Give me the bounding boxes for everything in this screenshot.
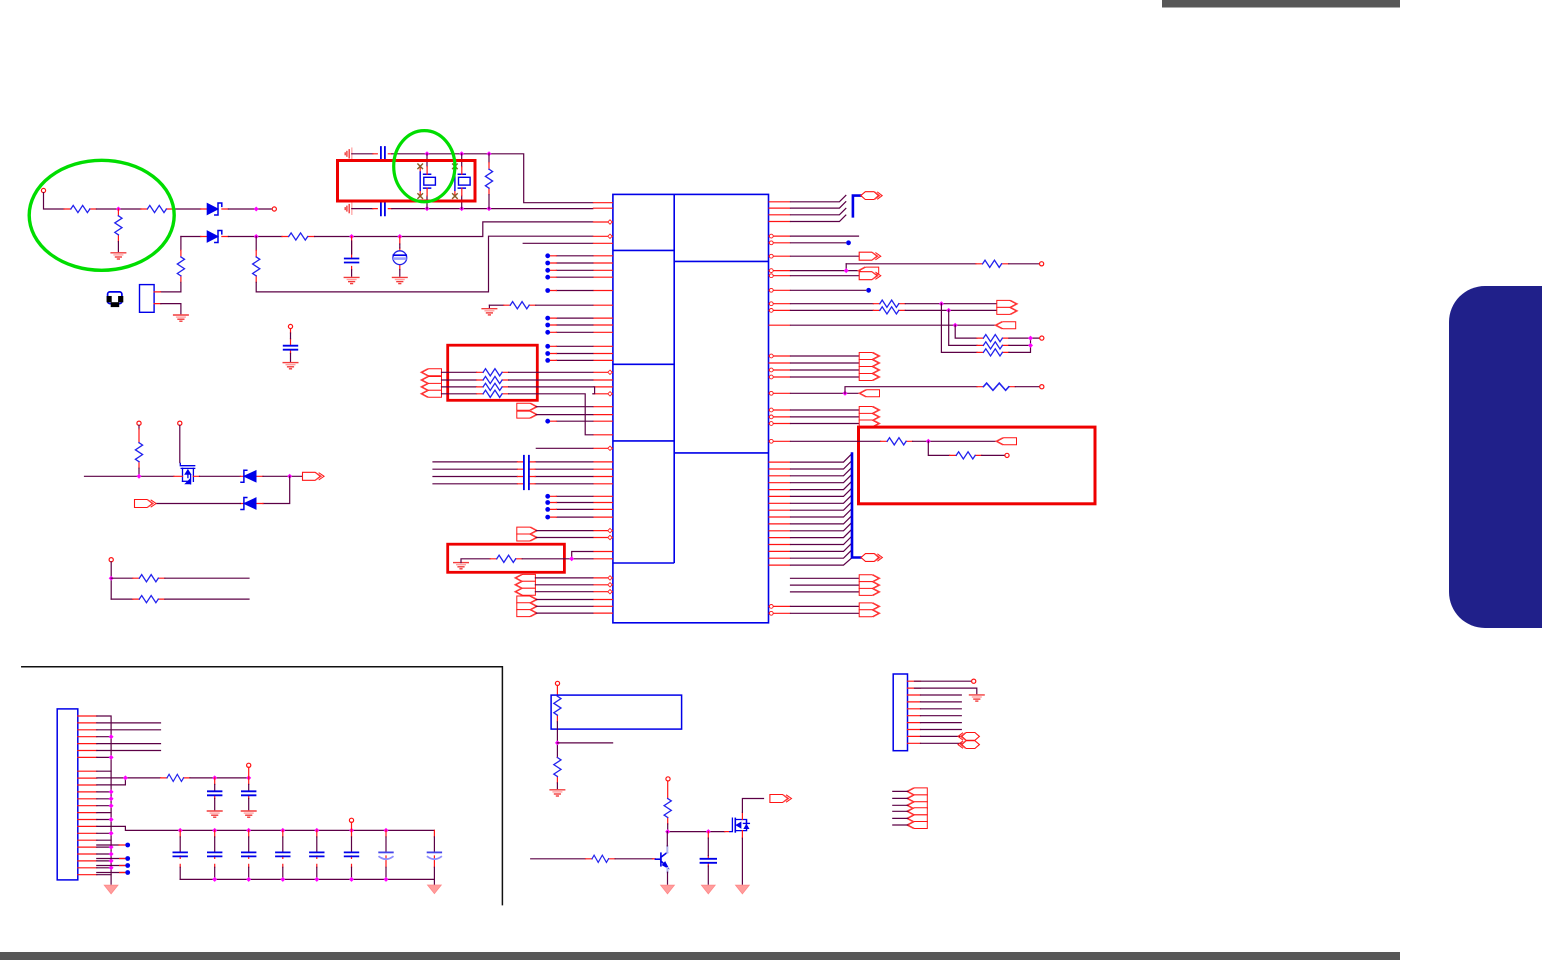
ground — [207, 811, 222, 817]
capacitor C7 — [173, 830, 187, 879]
tap wire — [557, 742, 612, 744]
hex port connector pair — [958, 733, 979, 741]
ground — [428, 885, 442, 894]
wire to port — [263, 475, 302, 477]
port double stack rows 304/311 — [997, 300, 1018, 307]
capacitor C1 — [351, 237, 353, 270]
resistor R15 — [873, 303, 905, 305]
junction — [116, 207, 121, 212]
small IC block U2 — [551, 695, 682, 729]
capacitor C12 — [345, 830, 359, 879]
resistor R7 — [488, 154, 490, 163]
resistor R27 lead — [556, 686, 558, 722]
transistor Q3 — [655, 852, 667, 866]
vertical wire — [110, 562, 112, 599]
ground — [283, 363, 298, 369]
stub wires into stack — [893, 791, 908, 825]
resistor R12 — [477, 393, 509, 395]
gate wire — [179, 425, 181, 462]
wire — [228, 236, 282, 238]
junction — [459, 206, 464, 211]
junction — [137, 474, 142, 479]
transistor Q3 base lead — [653, 858, 656, 860]
ground rotated top rail — [345, 148, 352, 159]
ground — [661, 885, 675, 894]
IC U1 internal divider vertical — [673, 194, 675, 563]
mounting logo glyph — [108, 292, 122, 304]
gate net wire — [668, 831, 725, 833]
no-connect stub wires group1 — [556, 256, 592, 517]
wire to connector — [913, 440, 997, 442]
no-connect dot — [846, 240, 851, 245]
junction — [665, 829, 670, 834]
crystal Y2 — [453, 164, 471, 198]
IC U1 divider seg F — [613, 562, 674, 564]
resistor R17 — [977, 337, 1009, 339]
port connector out — [770, 795, 792, 803]
risers to resistor trio — [941, 304, 977, 353]
power terminal — [1040, 262, 1044, 266]
pin2 wire to ground — [915, 688, 977, 694]
ground — [104, 885, 118, 894]
wire below — [556, 722, 558, 757]
IC U1 divider seg B — [674, 260, 768, 262]
wire to left port — [157, 503, 241, 505]
mosfet Q2 gate lead — [725, 831, 730, 833]
emitter pin — [667, 868, 669, 872]
resistor R4 — [180, 250, 182, 282]
wire — [173, 208, 201, 210]
capacitor C6 — [248, 778, 250, 799]
junction — [926, 439, 931, 444]
wires to hex ports — [921, 736, 962, 743]
lower bus blue — [852, 454, 861, 558]
wire — [44, 193, 65, 209]
ground rotated bottom rail — [345, 203, 352, 214]
mosfet Q2 — [730, 818, 750, 832]
capacitor C10 — [276, 830, 290, 879]
stub wire row 236 — [791, 235, 859, 237]
lower pair power terminal — [109, 558, 113, 562]
connector box-left row 393 — [859, 390, 880, 397]
junction — [254, 234, 259, 239]
rail junctions — [178, 828, 183, 833]
feedthrough capacitor plates — [524, 456, 529, 489]
top bus fan wires — [791, 195, 846, 221]
capacitor C9 — [242, 830, 256, 879]
IC U1 outline — [613, 194, 769, 622]
connector stack left 3x rows 578-592 — [515, 574, 536, 581]
no-connect dot — [866, 288, 871, 293]
loop wire down — [263, 476, 290, 503]
junction — [212, 775, 217, 780]
wire — [228, 208, 271, 210]
row1 wire — [111, 577, 133, 579]
connector box-left row 441 — [996, 438, 1017, 445]
junction — [123, 775, 128, 780]
IC U1 divider seg A — [613, 249, 674, 251]
IC U1 divider seg E — [674, 452, 768, 454]
port connector row 275 — [859, 272, 881, 280]
junction — [569, 556, 574, 561]
resistor R24 — [133, 577, 165, 579]
IC U1 right pin stubs — [769, 202, 791, 614]
ground — [550, 790, 565, 796]
IC U1 divider seg C — [613, 363, 674, 365]
pin1 wire to power — [915, 680, 971, 682]
wire — [536, 304, 593, 306]
resistor R28 — [556, 757, 558, 783]
IC U1 right fan pin stubs — [769, 462, 791, 565]
power terminal — [1040, 336, 1044, 340]
resistor R14 — [983, 260, 1002, 267]
rows 410-423 wires — [791, 410, 860, 424]
stacked left connectors 6x — [907, 788, 928, 795]
wires — [535, 578, 592, 592]
main wire row 476 — [85, 475, 174, 477]
cap bank rail feed — [97, 826, 435, 830]
ground — [241, 811, 256, 817]
green highlight circle — [394, 131, 455, 202]
wire top rail — [352, 153, 373, 155]
node terminal — [272, 207, 276, 211]
resistor R11 — [477, 386, 509, 388]
port stack 3x rows 410-423 — [859, 407, 880, 414]
resistor R25 — [133, 598, 165, 600]
IC U1 right pin circles — [769, 234, 773, 615]
resistor R16 — [873, 309, 905, 311]
junction — [254, 207, 259, 212]
IC U1 divider seg D — [613, 440, 674, 442]
navy rounded tab right — [1449, 286, 1542, 628]
connector J1 body — [140, 285, 155, 313]
row 275 wire — [791, 275, 860, 277]
wire — [96, 208, 141, 210]
port connector pair rows 406/414 — [517, 403, 538, 410]
wires — [536, 407, 593, 415]
rail junctions bottom — [212, 877, 217, 882]
bus port hex connector lower — [861, 554, 882, 562]
resistor R1 — [64, 208, 96, 210]
IC U1 left pin diamonds — [608, 220, 612, 594]
power terminal — [247, 763, 251, 767]
wire — [489, 304, 503, 306]
capacitor C8 — [208, 830, 222, 879]
junction — [844, 268, 849, 273]
row 441 wire — [791, 440, 881, 442]
power terminal gate — [178, 421, 182, 425]
diode D2 — [201, 236, 229, 238]
top gray bar — [1162, 0, 1400, 8]
connector box-left row 270 — [858, 267, 879, 274]
collector pin — [666, 846, 668, 853]
connector J2 pin stubs group2 — [78, 771, 97, 875]
bus port hex connector — [861, 192, 882, 200]
junction — [1028, 336, 1033, 341]
junction — [1028, 343, 1033, 348]
decoupling node terminal — [288, 324, 292, 328]
junction — [287, 474, 292, 479]
resistor R2 — [141, 208, 173, 210]
mosfet Q2 drain wire — [741, 812, 743, 819]
power feed wire — [97, 778, 161, 785]
ground in box — [454, 563, 469, 569]
section divider frame — [22, 667, 503, 905]
ground — [701, 885, 715, 894]
riser and net wire 386 — [845, 387, 977, 394]
capacitor C3 — [373, 153, 392, 155]
resistor R30 — [586, 858, 616, 860]
resistor R6 — [255, 250, 257, 282]
resistor R9 — [477, 371, 509, 373]
bus tap wires — [97, 737, 111, 875]
port connector in — [135, 500, 157, 508]
connector J2 body — [57, 709, 78, 880]
red highlight box crystals — [338, 161, 476, 202]
capacitor C5 — [214, 778, 216, 799]
wires resistors to IC — [509, 372, 595, 435]
lower bus fan wires — [791, 454, 853, 565]
rows 356-377 wires — [791, 356, 860, 377]
port connector row 256 — [859, 252, 881, 260]
wire row2 left — [181, 236, 201, 238]
row 256 wire — [791, 255, 860, 257]
junction — [425, 206, 430, 211]
connector box-left row 325 — [995, 322, 1016, 329]
riser to row 270 — [845, 264, 847, 271]
green highlight ellipse — [29, 160, 174, 270]
zener D3 — [240, 475, 263, 477]
junction — [459, 151, 464, 156]
resistor R10 — [477, 379, 509, 381]
connector J2 pin stubs group1 — [78, 716, 97, 757]
ground bus vertical — [97, 716, 111, 884]
row 290 wire to dot — [791, 289, 866, 291]
port stack 3x rows 578-592 — [859, 575, 880, 582]
ground — [111, 253, 126, 259]
free signal wires crossing — [97, 723, 161, 751]
feedthrough red leads — [517, 462, 535, 484]
resistor R8 — [504, 304, 536, 306]
row 242 wire to dot — [791, 242, 846, 244]
resistor R26 — [161, 777, 190, 779]
power terminal — [972, 679, 976, 683]
rows 606/613 wires — [791, 606, 860, 613]
wire loop to pin row — [256, 236, 593, 292]
wire after mosfet — [200, 475, 241, 477]
top bus blue — [853, 196, 861, 217]
row 270 wire — [791, 270, 860, 272]
resistor R29 — [667, 781, 669, 824]
wire to connector pin1 — [161, 282, 181, 292]
no-connect blue dots — [545, 253, 550, 519]
row 393 wire — [791, 392, 861, 394]
resistor R3 pulldown — [117, 209, 119, 242]
junction — [425, 151, 430, 156]
resistor R22 — [950, 454, 982, 456]
resistor R21 — [881, 440, 913, 442]
resistor R23 — [138, 425, 140, 429]
wire rail — [190, 777, 247, 779]
crystal Y1 leads — [426, 154, 428, 209]
junction — [349, 234, 354, 239]
net wire row 263 with resistor — [846, 263, 976, 265]
stub wire row 448 — [536, 447, 593, 449]
port connector out — [303, 472, 325, 480]
series resistor bank red box — [448, 345, 538, 400]
power terminal pullup — [666, 777, 670, 781]
bottom gray bar — [0, 952, 1400, 960]
ground — [174, 315, 189, 321]
ground — [344, 277, 359, 283]
wire to pins — [522, 552, 593, 559]
capacitor C4 — [373, 208, 392, 210]
wire row2 — [315, 222, 593, 237]
bus wires with feedthrough caps — [433, 462, 593, 484]
wire bottom rail — [352, 208, 373, 210]
capacitor C15 — [707, 832, 709, 866]
resistor column x256 — [255, 237, 257, 251]
capacitor C11 — [310, 830, 324, 879]
connector stack right 3x rows 599-613 — [517, 596, 538, 603]
row 325 wire — [791, 324, 997, 326]
mosfet Q1 — [180, 463, 194, 483]
junction — [109, 576, 114, 581]
battery cell BT1 — [399, 237, 401, 270]
polarized capacitor C13 — [379, 830, 393, 879]
wire — [461, 559, 490, 563]
wires — [536, 531, 593, 538]
port stack 2x rows 606/613 — [859, 603, 880, 610]
junction — [246, 775, 251, 780]
no-connect dot pins — [97, 845, 126, 873]
wires — [536, 600, 593, 614]
IC U1 left pin stubs — [593, 203, 613, 613]
junction — [397, 234, 402, 239]
wire stub net row — [523, 242, 593, 244]
tie wires and power — [1009, 338, 1040, 352]
crystal Y2 leads — [461, 154, 463, 209]
junction — [946, 308, 951, 313]
connector J1 pins — [154, 292, 161, 304]
wire — [117, 242, 119, 252]
capacitor C2 — [290, 329, 292, 354]
red highlight box strap — [859, 427, 1096, 504]
signal stub wires — [921, 695, 962, 730]
connector J3 pin stubs — [908, 681, 921, 743]
ground for strap resistor — [482, 309, 497, 315]
resistor R20 — [977, 386, 1015, 388]
junction — [487, 206, 492, 211]
bus junction dots — [109, 734, 114, 739]
resistor R27 — [554, 696, 561, 715]
bottom return rail — [180, 879, 434, 884]
wires to double port — [905, 304, 997, 311]
junction — [555, 740, 560, 745]
diode D1 — [201, 208, 229, 210]
input connector stack 4x — [421, 369, 442, 398]
resistor R5 row2 — [282, 236, 315, 238]
red box pull-down row — [448, 544, 565, 572]
wire column to resistor R4 — [180, 237, 182, 251]
junction — [843, 391, 848, 396]
junction — [706, 829, 711, 834]
resistor R18 — [977, 344, 1009, 346]
power terminal — [137, 421, 141, 425]
row2 wire — [111, 598, 133, 600]
connector J3 body — [893, 674, 907, 751]
crystal Y1 — [418, 164, 436, 198]
base input wire — [531, 858, 586, 860]
power terminal rail — [349, 818, 353, 822]
ground — [736, 885, 750, 894]
port stack 4x rows 356-377 — [859, 353, 880, 360]
drop wire to resistor R22 — [928, 441, 949, 455]
node VIN open terminal — [41, 188, 45, 192]
wire top rail to IC — [392, 154, 593, 203]
wire bottom rail to IC — [392, 208, 593, 210]
ground — [393, 277, 408, 283]
junction — [487, 151, 492, 156]
junction — [939, 301, 944, 306]
rows 578-592 wires — [791, 578, 860, 592]
junction — [953, 323, 958, 328]
power terminal — [1040, 385, 1044, 389]
port connector pair rows 530/537 — [517, 527, 538, 534]
no-connect stub red leads — [550, 256, 556, 517]
zener D4 — [240, 503, 263, 505]
rows 303/310 wires — [791, 304, 874, 311]
polarized capacitor C14 — [428, 830, 442, 879]
wire pin2 to ground — [161, 304, 181, 314]
power terminal — [555, 681, 559, 685]
wires connector to resistors — [442, 372, 477, 394]
ground — [970, 695, 985, 701]
power terminal — [1005, 453, 1009, 457]
mosfet Q2 source wire — [741, 831, 743, 839]
resistor R13 — [490, 558, 522, 560]
resistor R19 — [977, 351, 1009, 353]
